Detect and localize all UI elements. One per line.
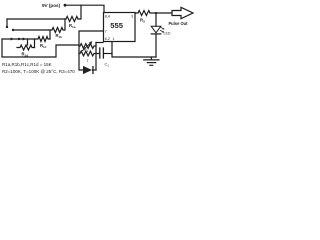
svg-text:9V (pos): 9V (pos) <box>42 3 61 8</box>
svg-text:1: 1 <box>113 37 115 41</box>
svg-text:6,2: 6,2 <box>105 37 110 41</box>
svg-text:555: 555 <box>110 21 123 30</box>
svg-text:8,4: 8,4 <box>105 14 110 18</box>
svg-text:R2=100K, T=100K @ 25°C, R3=470: R2=100K, T=100K @ 25°C, R3=470 <box>2 69 75 74</box>
svg-text:3: 3 <box>131 14 133 18</box>
svg-text:LED: LED <box>164 32 171 36</box>
svg-text:Pulse Out: Pulse Out <box>168 21 188 26</box>
svg-text:7: 7 <box>105 30 107 34</box>
svg-text:R1a,R1b,R1c,R1d = 15K: R1a,R1b,R1c,R1d = 15K <box>2 62 52 67</box>
